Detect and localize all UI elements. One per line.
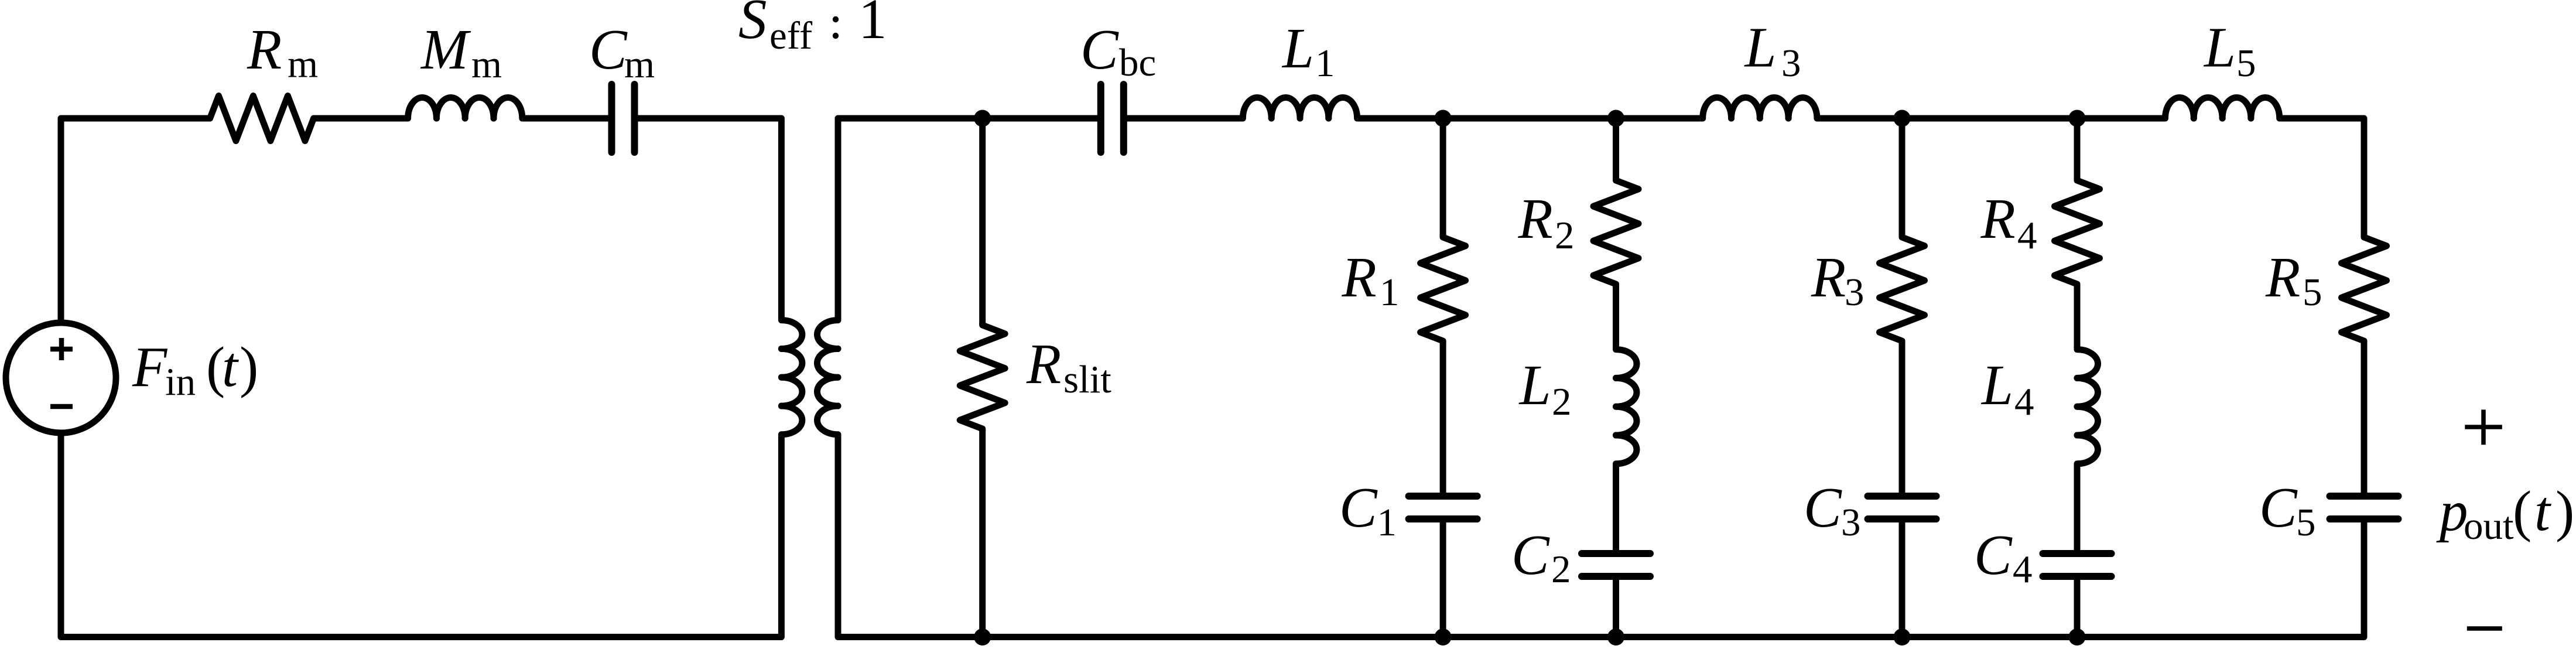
wire: branch 2 bottom	[1613, 576, 1619, 637]
node: branch 2 bottom junction	[1607, 628, 1624, 645]
resistor R_5	[2342, 235, 2387, 343]
resistor R_1	[1421, 235, 1466, 343]
inductor L_1	[1240, 97, 1358, 118]
svg-text:3: 3	[1781, 42, 1801, 85]
wire: branch 1 bottom	[1440, 519, 1446, 637]
wire: branch 4 top	[2074, 118, 2081, 180]
svg-text:): )	[2556, 480, 2574, 542]
svg-text:): )	[240, 336, 258, 398]
svg-text:R: R	[1342, 246, 1377, 309]
inductor M_m	[405, 97, 522, 118]
svg-text:C: C	[2259, 476, 2298, 539]
svg-text:C: C	[1080, 18, 1119, 81]
output plus sign	[2465, 409, 2502, 445]
svg-text:R: R	[247, 18, 282, 81]
inductor L_5	[2163, 97, 2281, 118]
svg-text:S: S	[738, 0, 767, 50]
svg-text:F: F	[132, 336, 168, 398]
capacitor C_3	[1868, 493, 1937, 500]
wire: branch 3 bottom	[1899, 519, 1906, 637]
wire: L_5 to top-right corner, down to R_5	[2281, 118, 2364, 237]
inductor L_4	[2077, 345, 2098, 470]
voltage source F_in(t)	[6, 323, 116, 433]
svg-text:5: 5	[2296, 501, 2316, 544]
resistor R_3	[1880, 235, 1925, 343]
wire: R_slit branch bottom	[979, 429, 986, 637]
wire: L_2 to C_2	[1613, 469, 1619, 554]
wire: branch 4 bottom	[2074, 576, 2081, 637]
wire: L_4 to C_4	[2074, 469, 2081, 554]
output minus sign	[2467, 626, 2502, 631]
wire: L_3 to node 3 and on to L_5	[1821, 115, 2163, 122]
wire: left edge top and top rail left segment	[61, 118, 211, 323]
node: R_slit top junction	[974, 110, 991, 127]
wire: secondary bottom lead, bottom rail, right edge bottom	[838, 436, 2364, 637]
svg-text:1: 1	[1380, 271, 1400, 314]
node: branch 3 top junction	[1894, 110, 1911, 127]
svg-text:R: R	[1980, 187, 2016, 250]
svg-text:4: 4	[2013, 548, 2033, 591]
svg-text:R: R	[1026, 333, 1061, 395]
wire: secondary top lead and top rail to C_bc	[838, 118, 1102, 319]
svg-text:eff: eff	[769, 14, 813, 57]
node: branch 4 bottom junction	[2069, 628, 2086, 645]
wire: transformer primary bottom lead, primary bottom rail, source bottom lead	[61, 433, 781, 637]
wire: M_m to C_m	[522, 115, 613, 122]
resistor R_4	[2055, 178, 2100, 286]
svg-text:(: (	[2513, 480, 2531, 542]
svg-text:L: L	[1281, 17, 1314, 80]
svg-text:1: 1	[1315, 42, 1335, 85]
svg-text:L: L	[1744, 16, 1777, 79]
resistor R_2	[1593, 178, 1638, 286]
svg-text:2: 2	[1552, 380, 1572, 423]
wire: R_4 to L_4	[2074, 284, 2081, 345]
wire: R_m to M_m	[314, 115, 405, 122]
wire: C_bc to L_1	[1123, 115, 1240, 122]
svg-text:L: L	[2203, 16, 2236, 79]
node: branch 1 top junction	[1435, 110, 1452, 127]
svg-text:2: 2	[1551, 548, 1571, 591]
capacitor C_5	[2330, 493, 2399, 500]
wire: branch 3 top	[1899, 118, 1906, 237]
svg-text:4: 4	[2014, 380, 2034, 423]
wire: R_2 to L_2	[1613, 284, 1619, 345]
wire: branch 1 top	[1440, 118, 1446, 237]
svg-text:slit: slit	[1063, 358, 1111, 401]
transformer secondary winding (right coil)	[817, 319, 839, 436]
svg-text:C: C	[1511, 524, 1550, 586]
inductor L_2	[1616, 345, 1637, 470]
wire: R_3 to C_3	[1899, 341, 1906, 496]
node: R_slit bottom junction	[974, 628, 991, 645]
svg-text:R: R	[2265, 246, 2300, 309]
wire: C_m to primary top-right corner, down to transformer primary	[634, 118, 781, 319]
svg-text:5: 5	[2236, 42, 2256, 85]
svg-text:C: C	[1804, 476, 1842, 539]
svg-text:t: t	[222, 336, 239, 398]
wire: R_slit branch top	[979, 118, 986, 325]
source plus sign	[50, 338, 73, 360]
svg-text:m: m	[288, 43, 318, 86]
capacitor C_m	[608, 84, 615, 152]
svg-text:in: in	[165, 360, 196, 404]
svg-text:M: M	[420, 18, 471, 81]
node: branch 3 bottom junction	[1894, 628, 1911, 645]
capacitor C_1	[1409, 493, 1477, 500]
capacitor C_4	[2043, 550, 2112, 557]
svg-text:3: 3	[1845, 271, 1865, 314]
source minus sign	[50, 404, 73, 409]
svg-text:t: t	[2534, 480, 2551, 542]
node: branch 1 bottom junction	[1435, 628, 1452, 645]
capacitor C_2	[1582, 550, 1650, 557]
node: branch 2 top junction	[1607, 110, 1624, 127]
transformer primary winding (left coil)	[781, 319, 802, 436]
inductor L_3	[1700, 97, 1821, 118]
svg-text:4: 4	[2017, 214, 2037, 257]
wire: branch 2 top	[1613, 118, 1619, 180]
svg-text:L: L	[1980, 354, 2013, 416]
wire: R_5 to C_5	[2361, 341, 2368, 496]
svg-text:m: m	[624, 43, 655, 86]
wire: L_1 to node 1 and on to L_3	[1358, 115, 1701, 122]
svg-text:3: 3	[1841, 501, 1861, 544]
svg-text:R: R	[1518, 187, 1553, 250]
svg-text:1: 1	[1377, 501, 1397, 544]
svg-text:1: 1	[858, 0, 887, 50]
svg-text:2: 2	[1555, 214, 1575, 257]
svg-text:5: 5	[2303, 271, 2322, 314]
capacitor C_bc	[1097, 84, 1104, 152]
node: branch 4 top junction	[2069, 110, 2086, 127]
svg-text:L: L	[1518, 354, 1551, 416]
resistor R_m	[208, 96, 316, 141]
svg-text:C: C	[589, 18, 628, 81]
wire: R_1 to C_1	[1440, 341, 1446, 496]
svg-text:R: R	[1811, 246, 1846, 309]
resistor R_slit	[960, 323, 1005, 431]
svg-text:C: C	[1974, 524, 2013, 586]
svg-text:C: C	[1339, 476, 1378, 539]
svg-text:bc: bc	[1119, 41, 1156, 84]
svg-text:m: m	[471, 43, 502, 86]
svg-text:out: out	[2464, 504, 2514, 548]
